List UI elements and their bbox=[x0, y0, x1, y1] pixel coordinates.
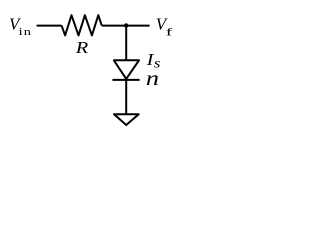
node Vf bbox=[156, 15, 173, 39]
svg-text:n: n bbox=[146, 67, 159, 90]
svg-text:f: f bbox=[166, 27, 173, 39]
wire bbox=[37, 25, 62, 27]
ground bbox=[114, 114, 139, 125]
node Vin bbox=[9, 15, 32, 38]
diode D1 bbox=[112, 60, 139, 80]
wire bbox=[125, 80, 127, 114]
resistor R bbox=[62, 15, 102, 35]
svg-text:R: R bbox=[75, 38, 89, 57]
label Is bbox=[146, 50, 161, 71]
wire bbox=[102, 25, 150, 27]
svg-text:in: in bbox=[19, 26, 32, 38]
wire bbox=[125, 26, 127, 61]
junction bbox=[124, 23, 128, 27]
